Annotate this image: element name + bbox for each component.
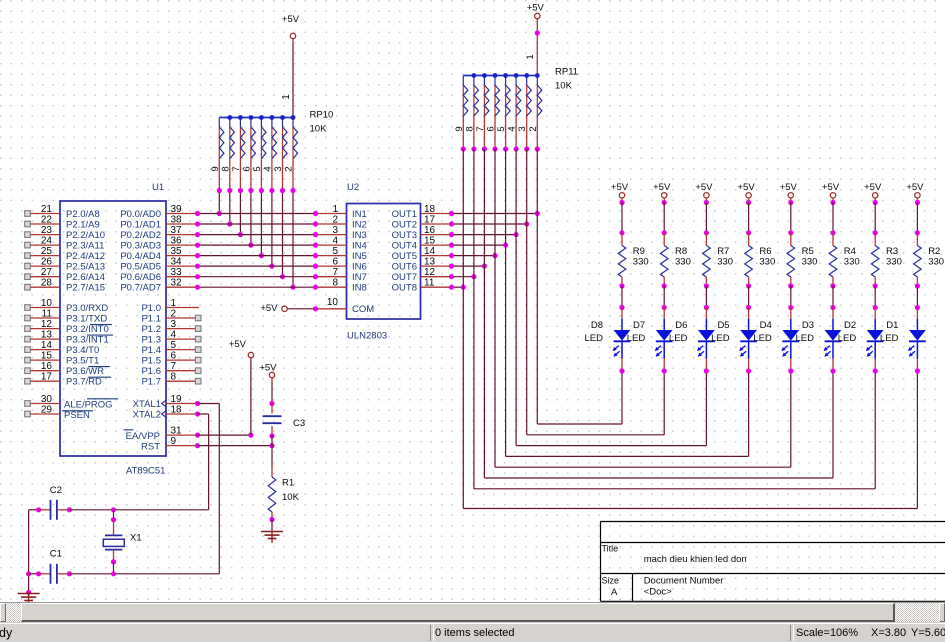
- ground symbol below R1: [261, 530, 283, 543]
- svg-text:EA/VPP: EA/VPP: [126, 431, 160, 442]
- wire OUT1 net horizontal: [449, 211, 540, 216]
- U2 pin 4 IN4: [316, 236, 367, 252]
- LED D5: [711, 308, 757, 372]
- svg-text:4: 4: [507, 126, 518, 131]
- U1 pin 35 P0.4/AD4: [120, 246, 197, 262]
- svg-text:P1.3: P1.3: [141, 335, 161, 346]
- resistor R3 330: [871, 233, 901, 286]
- wire OUT4 net horizontal: [449, 243, 508, 248]
- svg-text:P1.1: P1.1: [141, 313, 161, 324]
- U1 P3.5 T1 underline: [89, 366, 111, 368]
- svg-text:11: 11: [42, 309, 53, 320]
- U2 pin 18 OUT1: [392, 204, 452, 220]
- power +5V symbol LED column D6: [695, 182, 713, 198]
- svg-text:+5V: +5V: [864, 182, 882, 193]
- svg-text:R7: R7: [717, 246, 729, 257]
- wire RP10 pin 5 to P0.4 net: [259, 188, 264, 258]
- svg-text:C1: C1: [50, 549, 62, 560]
- RP10 resistor element pin 5: [252, 115, 266, 190]
- svg-text:P3.4/T0: P3.4/T0: [66, 345, 99, 356]
- wire RP10 pin 7 to P0.2 net: [238, 188, 243, 237]
- svg-text:P3.0/RXD: P3.0/RXD: [66, 303, 108, 314]
- U1 pin 28 P2.7/A15: [25, 278, 105, 294]
- resistor R1 10K: [268, 477, 299, 512]
- svg-text:30: 30: [41, 394, 53, 405]
- svg-text:P0.4/AD4: P0.4/AD4: [120, 251, 161, 262]
- svg-text:5: 5: [496, 126, 507, 131]
- svg-text:36: 36: [171, 236, 183, 247]
- svg-text:4: 4: [262, 166, 273, 171]
- svg-text:P1.5: P1.5: [141, 356, 161, 367]
- RP11 resistor element pin 4: [507, 73, 521, 149]
- svg-text:330: 330: [802, 257, 818, 268]
- svg-text:+5V: +5V: [780, 182, 798, 193]
- U1 pin 9 RST: [141, 436, 198, 453]
- wire P0.2/AD2 to IN3: [195, 232, 318, 237]
- power +5V symbol COM: [260, 303, 287, 314]
- wire D2 cathode junction: [873, 368, 878, 373]
- svg-text:33: 33: [171, 267, 183, 278]
- svg-text:19: 19: [171, 394, 183, 405]
- U1 pin 29 PSEN: [25, 405, 90, 422]
- svg-text:330: 330: [844, 257, 860, 268]
- svg-text:U1: U1: [152, 182, 164, 193]
- capacitor C2: [29, 485, 120, 520]
- wire RST node to R1: [271, 446, 273, 477]
- svg-text:A: A: [611, 587, 618, 598]
- svg-text:1: 1: [171, 298, 177, 309]
- U2 pin 17 OUT2: [392, 215, 452, 231]
- power +5V symbol LED column D4: [780, 182, 798, 198]
- wire RP10 pin 9 to P0.0 net: [217, 188, 222, 216]
- svg-text:RP10: RP10: [310, 110, 334, 121]
- svg-text:P0.2/AD2: P0.2/AD2: [120, 230, 161, 241]
- IC U1 AT89C51 body: [60, 201, 166, 456]
- svg-text:10K: 10K: [555, 81, 573, 92]
- svg-text:34: 34: [171, 257, 183, 268]
- svg-text:D3: D3: [802, 320, 814, 331]
- IC U2 ULN2803 body: [347, 204, 421, 320]
- svg-text:18: 18: [424, 204, 436, 215]
- svg-text:P1.0: P1.0: [141, 303, 161, 314]
- RP10 resistor element pin 4: [262, 115, 276, 190]
- wire +5V to R5: [788, 198, 793, 235]
- svg-text:Size: Size: [602, 576, 620, 586]
- wire EA/VPP to +5V: [195, 358, 254, 438]
- U1 pin 34 P0.5/AD5: [120, 257, 197, 273]
- svg-text:26: 26: [41, 257, 53, 268]
- svg-text:P2.5/A13: P2.5/A13: [66, 262, 105, 273]
- wire +5V to R4: [830, 198, 835, 235]
- wire OUT3 net horizontal: [449, 232, 519, 237]
- U1 pin 15 P3.5/T1: [25, 351, 100, 367]
- svg-text:mach dieu khien led don: mach dieu khien led don: [644, 554, 747, 565]
- svg-text:P2.2/A10: P2.2/A10: [66, 230, 105, 241]
- RP10 resistor element pin 2: [284, 115, 298, 190]
- U2 pin 14 OUT5: [392, 246, 452, 262]
- svg-text:2: 2: [332, 215, 338, 226]
- U1 pin 36 P0.3/AD3: [120, 236, 197, 252]
- LED D1: [880, 308, 926, 372]
- RP10 labels: [310, 110, 334, 135]
- svg-text:9: 9: [454, 126, 465, 131]
- svg-text:C2: C2: [50, 485, 62, 496]
- svg-text:OUT4: OUT4: [392, 241, 417, 252]
- U1 pin 5 P1.4: [141, 340, 201, 356]
- svg-text:7: 7: [231, 166, 242, 171]
- svg-text:Document Number: Document Number: [644, 576, 724, 587]
- LED D7: [627, 308, 673, 372]
- svg-text:22: 22: [41, 215, 53, 226]
- svg-text:+5V: +5V: [282, 14, 300, 25]
- capacitor C3: [263, 416, 306, 429]
- svg-text:11: 11: [424, 278, 435, 289]
- svg-text:32: 32: [171, 278, 183, 289]
- power +5V symbol LED column D1: [906, 182, 924, 198]
- wire R5 to D4: [788, 283, 793, 310]
- svg-text:P2.3/A11: P2.3/A11: [66, 241, 104, 252]
- svg-text:15: 15: [424, 236, 436, 247]
- svg-text:XTAL2: XTAL2: [133, 409, 161, 420]
- power +5V symbol LED column D7: [653, 182, 671, 198]
- svg-text:P3.6/WR: P3.6/WR: [66, 366, 104, 377]
- U1 pin 16 P3.6/WR: [25, 361, 104, 377]
- svg-text:10K: 10K: [310, 124, 328, 135]
- U1 pin 6 P1.5: [141, 351, 201, 367]
- U1 pin 22 P2.1/A9: [25, 215, 100, 231]
- svg-text:R6: R6: [759, 246, 771, 257]
- wire RP10 pin 3 to P0.6 net: [280, 188, 285, 279]
- wire +5V to R8: [662, 198, 667, 235]
- wire OUT2 net horizontal: [449, 221, 529, 226]
- wire R2 to D1: [915, 283, 920, 310]
- svg-text:LED: LED: [711, 333, 730, 344]
- wire R9 to D8: [619, 283, 624, 310]
- svg-text:C3: C3: [293, 418, 305, 429]
- svg-text:R4: R4: [844, 246, 856, 257]
- U2 pin 15 OUT4: [392, 236, 452, 252]
- U2 value label ULN2803: [347, 331, 387, 342]
- LED D8: [585, 308, 631, 372]
- U1 pin 18 XTAL2: [133, 405, 198, 421]
- svg-text:17: 17: [424, 215, 436, 226]
- U1 pin 30 ALE/PROG: [25, 394, 118, 411]
- svg-text:P3.3/INT1: P3.3/INT1: [66, 335, 109, 346]
- wire P0.5/AD5 to IN6: [195, 264, 318, 269]
- wire RST net: [195, 443, 275, 448]
- RP10 pin 1 riser to +5V: [281, 39, 293, 118]
- U1 pin 1 P1.0: [141, 298, 199, 314]
- svg-text:7: 7: [475, 126, 486, 131]
- resistor R6 330: [745, 233, 775, 286]
- svg-text:330: 330: [886, 257, 902, 268]
- wire +5V to R6: [746, 198, 751, 235]
- svg-text:6: 6: [241, 166, 252, 171]
- resistor R4 330: [829, 233, 859, 286]
- LED D3: [796, 308, 842, 372]
- wire R6 to D5: [746, 283, 751, 310]
- svg-text:13: 13: [424, 257, 436, 268]
- wire +5V to COM pin: [287, 306, 318, 311]
- RP11 pin 1 riser to +5V: [525, 19, 540, 76]
- wire XTAL1 to crystal: [120, 401, 219, 574]
- svg-text:+5V: +5V: [738, 182, 756, 193]
- svg-text:31: 31: [171, 426, 183, 437]
- svg-text:+5V: +5V: [260, 303, 278, 314]
- svg-text:2: 2: [528, 126, 539, 131]
- svg-text:12: 12: [424, 267, 436, 278]
- svg-text:R9: R9: [633, 246, 645, 257]
- svg-text:1: 1: [332, 204, 338, 215]
- svg-text:9: 9: [210, 166, 221, 171]
- svg-text:IN5: IN5: [352, 251, 367, 262]
- svg-text:OUT1: OUT1: [392, 209, 417, 220]
- wire OUT5 net horizontal: [449, 253, 498, 258]
- U2 pin 2 IN2: [316, 215, 367, 231]
- svg-text:9: 9: [171, 436, 177, 447]
- wire OUT3 vertical + run to LED D6: [514, 146, 707, 445]
- capacitor C1: [29, 549, 120, 584]
- svg-text:5: 5: [332, 246, 338, 257]
- wire OUT7 vertical + run to LED D2: [471, 146, 875, 488]
- svg-text:330: 330: [675, 257, 691, 268]
- resistor pack RP10 common bus: [219, 117, 293, 119]
- svg-text:R2: R2: [928, 246, 940, 257]
- svg-text:Title: Title: [602, 544, 619, 554]
- RP10 resistor element pin 7: [231, 115, 245, 190]
- wire P0.3/AD3 to IN4: [195, 243, 318, 248]
- svg-text:P0.3/AD3: P0.3/AD3: [120, 241, 161, 252]
- svg-text:35: 35: [171, 246, 183, 257]
- svg-text:P0.6/AD6: P0.6/AD6: [120, 272, 161, 283]
- svg-text:6: 6: [171, 351, 177, 362]
- svg-text:4: 4: [332, 236, 338, 247]
- wire D7 cathode junction: [662, 368, 667, 373]
- svg-text:330: 330: [928, 257, 944, 268]
- wire left rail C2-C1-ground: [26, 510, 31, 595]
- wire XTAL2 to crystal: [120, 411, 209, 509]
- svg-text:39: 39: [171, 204, 183, 215]
- svg-text:+5V: +5V: [653, 182, 671, 193]
- RP11 resistor element pin 8: [464, 73, 478, 149]
- svg-text:+5V: +5V: [527, 3, 545, 14]
- U2 pin 11 OUT8: [392, 278, 452, 294]
- svg-text:2: 2: [171, 309, 177, 320]
- svg-text:10: 10: [41, 298, 53, 309]
- U1 pin 3 P1.2: [141, 319, 201, 335]
- svg-text:2: 2: [284, 166, 295, 171]
- wire OUT2 vertical + run to LED D7: [524, 146, 664, 434]
- U2 pin 12 OUT7: [392, 267, 452, 283]
- svg-text:D2: D2: [844, 320, 856, 331]
- U1 value label AT89C51: [126, 466, 165, 477]
- svg-text:10K: 10K: [282, 492, 300, 503]
- U2 reference label: [347, 182, 359, 193]
- RP10 resistor element pin 3: [273, 115, 287, 190]
- svg-text:OUT7: OUT7: [392, 272, 417, 283]
- RP11 resistor element pin 5: [496, 73, 510, 149]
- svg-text:D5: D5: [717, 320, 729, 331]
- svg-text:P2.4/A12: P2.4/A12: [66, 251, 105, 262]
- RP11 resistor element pin 9: [454, 76, 468, 150]
- svg-text:5: 5: [252, 166, 263, 171]
- wire D8 cathode junction: [619, 368, 624, 373]
- svg-text:R8: R8: [675, 246, 687, 257]
- svg-text:LED: LED: [585, 333, 604, 344]
- svg-text:ALE/PROG: ALE/PROG: [64, 400, 113, 411]
- U1 pin 24 P2.3/A11: [25, 236, 105, 252]
- resistor R7 330: [703, 233, 733, 286]
- svg-text:3: 3: [517, 126, 528, 131]
- U1 pin 7 P1.6: [141, 361, 201, 377]
- RP11 labels: [555, 67, 578, 92]
- U2 pin 7 IN7: [316, 267, 367, 283]
- svg-text:LED: LED: [796, 333, 815, 344]
- power +5V symbol RP10: [282, 14, 300, 39]
- svg-text:8: 8: [464, 126, 475, 131]
- svg-text:AT89C51: AT89C51: [126, 466, 165, 477]
- svg-text:28: 28: [41, 278, 53, 289]
- wire D3 cathode junction: [830, 368, 835, 373]
- node X1 bottom: [111, 550, 116, 577]
- svg-text:17: 17: [41, 372, 53, 383]
- U1 pin 17 P3.7/RD: [25, 372, 102, 388]
- svg-text:P1.4: P1.4: [141, 345, 161, 356]
- svg-text:P3.5/T1: P3.5/T1: [66, 356, 99, 367]
- U1 pin 37 P0.2/AD2: [120, 225, 197, 241]
- U1 pin 38 P0.1/AD1: [120, 215, 197, 231]
- RP11 resistor element pin 2: [528, 73, 542, 149]
- svg-text:27: 27: [41, 267, 53, 278]
- U1 pin 31 EA/VPP: [124, 426, 198, 443]
- svg-text:15: 15: [41, 351, 53, 362]
- svg-text:330: 330: [633, 257, 649, 268]
- wire OUT8 vertical + run to LED D1: [461, 146, 918, 508]
- svg-text:7: 7: [332, 267, 338, 278]
- svg-text:LED: LED: [753, 333, 772, 344]
- wire R3 to D2: [873, 283, 878, 310]
- svg-text:+5V: +5V: [695, 182, 713, 193]
- wire +5V to R3: [873, 198, 878, 235]
- svg-text:13: 13: [41, 330, 53, 341]
- wire +5V to R2: [915, 198, 920, 235]
- svg-text:P2.1/A9: P2.1/A9: [66, 219, 100, 230]
- U1 pin 13 P3.3/INT1: [25, 330, 109, 346]
- power +5V symbol RP11: [527, 3, 545, 19]
- svg-text:RST: RST: [141, 442, 160, 453]
- svg-text:P3.1/TXD: P3.1/TXD: [66, 313, 107, 324]
- svg-text:3: 3: [171, 319, 177, 330]
- svg-text:IN2: IN2: [352, 219, 367, 230]
- wire OUT4 vertical + run to LED D5: [503, 146, 749, 456]
- wire +5V to C3: [269, 378, 274, 414]
- svg-text:IN3: IN3: [352, 230, 367, 241]
- RP10 resistor element pin 9: [210, 118, 224, 191]
- title block: [601, 522, 945, 602]
- U1 P3.2 INT0 underline: [87, 334, 113, 336]
- svg-text:14: 14: [424, 246, 436, 257]
- svg-text:P0.0/AD0: P0.0/AD0: [120, 209, 161, 220]
- wire P0.6/AD6 to IN7: [195, 274, 318, 279]
- U2 pin 13 OUT6: [392, 257, 452, 273]
- svg-text:P3.2/INT0: P3.2/INT0: [66, 324, 109, 335]
- svg-text:38: 38: [171, 215, 183, 226]
- svg-text:LED: LED: [838, 333, 857, 344]
- svg-text:7: 7: [171, 361, 177, 372]
- U1 pin 11 P3.1/TXD: [25, 309, 108, 325]
- svg-text:+5V: +5V: [611, 182, 629, 193]
- svg-text:25: 25: [41, 246, 53, 257]
- svg-text:P0.1/AD1: P0.1/AD1: [120, 219, 161, 230]
- wire C3 to RST node: [269, 426, 274, 446]
- wire RP10 pin 4 to P0.5 net: [269, 188, 274, 269]
- crystal X1: [103, 533, 141, 550]
- svg-text:24: 24: [41, 236, 53, 247]
- svg-text:R1: R1: [282, 478, 294, 489]
- wire P0.4/AD4 to IN5: [195, 253, 318, 258]
- LED D4: [753, 308, 799, 372]
- svg-text:OUT5: OUT5: [392, 251, 417, 262]
- RP10 resistor element pin 6: [241, 115, 255, 190]
- U2 pin 8 IN8: [316, 278, 367, 294]
- U1 pin 4 P1.3: [141, 330, 201, 346]
- U1 pin 32 P0.7/AD7: [120, 278, 197, 294]
- wire OUT5 vertical + run to LED D4: [492, 146, 790, 467]
- svg-text:12: 12: [41, 319, 53, 330]
- LED D6: [669, 308, 715, 372]
- svg-text:X1: X1: [130, 533, 142, 544]
- U2 pin 6 IN6: [316, 257, 367, 273]
- power +5V symbol LED column D8: [611, 182, 629, 198]
- horizontal scrollbar: [0, 603, 945, 622]
- svg-text:P3.7/RD: P3.7/RD: [66, 377, 102, 388]
- wire P0.7/AD7 to IN8: [195, 285, 318, 290]
- svg-text:P1.7: P1.7: [141, 377, 161, 388]
- wire R8 to D7: [662, 283, 667, 310]
- U1 P3.1 TXD underline: [90, 324, 112, 326]
- svg-text:1: 1: [525, 54, 536, 59]
- svg-text:D7: D7: [633, 320, 645, 331]
- svg-text:37: 37: [171, 225, 183, 236]
- svg-text:D4: D4: [760, 320, 772, 331]
- resistor R2 330: [914, 233, 944, 286]
- resistor R8 330: [660, 233, 690, 286]
- wire OUT8 net horizontal: [449, 285, 466, 290]
- svg-text:5: 5: [171, 340, 177, 351]
- svg-text:8: 8: [332, 278, 338, 289]
- svg-text:U2: U2: [347, 182, 359, 193]
- U2 pin 3 IN3: [316, 225, 367, 241]
- svg-text:P1.2: P1.2: [141, 324, 161, 335]
- U2 pin 10 COM: [316, 297, 375, 315]
- svg-text:R5: R5: [802, 246, 814, 257]
- svg-text:+5V: +5V: [229, 339, 247, 350]
- wire OUT6 vertical + run to LED D3: [482, 146, 833, 478]
- ground symbol bottom left: [18, 592, 40, 605]
- wire OUT7 net horizontal: [449, 274, 477, 279]
- svg-text:21: 21: [41, 204, 53, 215]
- U1 pin 23 P2.2/A10: [25, 225, 105, 241]
- RP11 resistor element pin 3: [517, 73, 531, 149]
- svg-text:IN6: IN6: [352, 262, 367, 273]
- U1 pin 2 P1.1: [141, 309, 201, 325]
- wire RP10 pin 8 to P0.1 net: [227, 188, 232, 227]
- svg-text:PSEN: PSEN: [64, 410, 90, 421]
- resistor R5 330: [787, 233, 817, 286]
- svg-text:XTAL1: XTAL1: [133, 399, 161, 410]
- wire R4 to D3: [830, 283, 835, 310]
- svg-text:P0.7/AD7: P0.7/AD7: [120, 283, 161, 294]
